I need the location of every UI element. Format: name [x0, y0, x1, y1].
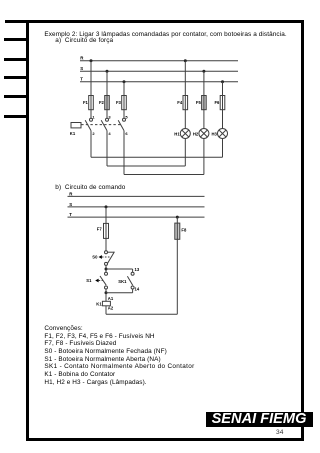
svg-text:4: 4 [108, 131, 111, 136]
wire F1 to contact 1 [90, 110, 92, 118]
subtitle a [55, 37, 113, 44]
svg-text:K1: K1 [96, 301, 102, 306]
svg-text:R: R [80, 56, 84, 61]
pin 1 [92, 114, 95, 119]
label S [80, 66, 83, 71]
wire lamp H3 down [222, 139, 224, 158]
button S0 NC [92, 251, 114, 266]
svg-text:T: T [69, 212, 72, 217]
fuse F3 [116, 96, 126, 110]
svg-text:R: R [69, 191, 73, 196]
wire S to F5 [203, 71, 205, 95]
contactor K1 drive box [70, 123, 81, 137]
lamp H1 [174, 129, 190, 139]
phase bus T [80, 81, 238, 83]
label S cmd [69, 202, 72, 207]
fuse F4 [177, 96, 187, 110]
phase bus S cmd [68, 206, 205, 208]
node on R feeding F4 [184, 59, 187, 62]
svg-text:3: 3 [108, 114, 111, 119]
node on S feeding F5 [202, 70, 205, 73]
phase bus R cmd [68, 195, 205, 197]
fuse F1 [83, 96, 93, 110]
wire F5 to lamp H2 [203, 110, 205, 129]
fuse F6 [215, 96, 225, 110]
wire F6 to lamp H3 [222, 110, 224, 129]
wire branch to SK1 top [106, 269, 133, 272]
label T [80, 77, 83, 82]
wire contact4 to H1 [107, 165, 185, 167]
wire contact 2 down [90, 131, 92, 158]
svg-text:H2: H2 [193, 131, 199, 136]
wire F4 to lamp H1 [184, 110, 186, 129]
wire R to F4 [184, 61, 186, 96]
wire F3 to contact 5 [123, 110, 125, 118]
pin 13 [135, 267, 140, 272]
svg-text:5: 5 [125, 114, 128, 119]
pin 6 [125, 131, 128, 136]
subtitle b [55, 184, 125, 191]
svg-text:T: T [80, 77, 83, 82]
svg-text:SK1: SK1 [118, 279, 127, 284]
pin 14 [135, 287, 140, 292]
node on T feeding F3 [123, 80, 126, 83]
svg-text:2: 2 [92, 131, 95, 136]
fuse F2 [99, 96, 109, 110]
pin 5 [125, 114, 128, 119]
fuse F7 [97, 223, 109, 238]
svg-text:6: 6 [125, 131, 128, 136]
wire T to F6 [222, 82, 224, 96]
page number 34 [276, 429, 284, 436]
label T cmd [69, 212, 72, 217]
node on T feeding F8 [176, 216, 179, 219]
svg-text:H1: H1 [174, 131, 180, 136]
fuse F8 [175, 223, 187, 239]
wire F2 to contact 3 [106, 110, 108, 118]
contact K1 pole 5-6 terminal [123, 118, 126, 121]
conventions text block [44, 325, 82, 332]
node S0 to branch [105, 266, 108, 273]
svg-text:14: 14 [135, 287, 140, 292]
coil K1 [96, 301, 110, 306]
contact K1 pole 1-2 terminal [90, 118, 93, 121]
svg-text:S: S [69, 202, 72, 207]
phase bus S [80, 70, 238, 72]
label R cmd [69, 191, 73, 196]
svg-text:S: S [80, 66, 83, 71]
svg-text:F5: F5 [196, 100, 202, 105]
node on R feeding F1 [90, 59, 93, 62]
pin A1 [108, 296, 114, 301]
contact K1 pole 1-2 blade [85, 120, 91, 130]
svg-text:F2: F2 [99, 100, 105, 105]
wire SK1 bottom to join [106, 289, 133, 293]
wire S to F7 [105, 207, 107, 224]
title text [44, 31, 286, 38]
node on S feeding F7 [105, 205, 108, 208]
phase bus T cmd [68, 216, 205, 218]
mechanical link dashed [81, 124, 122, 126]
wire contact6 to H2 [124, 174, 204, 176]
svg-text:S1: S1 [86, 278, 92, 283]
wire R to F1 [90, 61, 92, 96]
node S1 SK1 join [105, 289, 108, 294]
wire coil to return [106, 239, 177, 314]
pin 4 [108, 131, 111, 136]
wire contact 6 down [123, 131, 125, 175]
svg-text:H3: H3 [212, 131, 218, 136]
contact K1 pole 5-6 blade [118, 120, 124, 130]
node on T feeding F6 [221, 80, 224, 83]
node on S feeding F2 [106, 70, 109, 73]
wire contact2 to H3 [91, 156, 223, 158]
wire contact 4 down [106, 131, 108, 166]
wire T to F8 [176, 217, 178, 223]
wire S to F2 [106, 71, 108, 95]
pin A2 [108, 306, 114, 311]
fuse F5 [196, 96, 206, 110]
pin 3 [108, 114, 111, 119]
svg-text:K1: K1 [70, 131, 76, 136]
lamp H3 [212, 129, 228, 139]
contact SK1 NO [118, 272, 134, 289]
svg-text:F3: F3 [116, 100, 122, 105]
svg-text:A2: A2 [108, 306, 114, 311]
svg-text:A1: A1 [108, 296, 114, 301]
svg-text:F4: F4 [177, 100, 183, 105]
pin 2 [92, 131, 95, 136]
wire F7 to S0 [105, 238, 107, 250]
label R [80, 56, 84, 61]
wire lamp H1 down [184, 139, 186, 167]
contact K1 pole 3-4 terminal [106, 118, 109, 121]
wire join to coil [105, 293, 107, 302]
svg-text:F6: F6 [215, 100, 221, 105]
svg-text:F7: F7 [97, 227, 103, 232]
svg-text:1: 1 [92, 114, 95, 119]
contact K1 pole 3-4 blade [101, 120, 107, 130]
lamp H2 [193, 129, 209, 139]
wire lamp H2 down [203, 139, 205, 175]
wire T to F3 [123, 82, 125, 96]
svg-text:13: 13 [135, 267, 140, 272]
svg-text:F8: F8 [181, 228, 187, 233]
svg-text:F1: F1 [83, 100, 89, 105]
svg-text:S0: S0 [92, 255, 98, 260]
SENAI FIEMG logo box [206, 412, 313, 427]
phase bus R [80, 60, 238, 62]
button S1 NO [86, 272, 107, 289]
